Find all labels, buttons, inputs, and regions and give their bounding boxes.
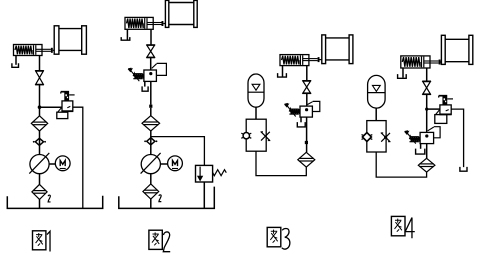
tank T2a (cylinder drain tank) <box>121 37 130 40</box>
cylinder YG3 (spring-applied brake cylinder) <box>280 55 322 66</box>
cylinder YG4 (spring-applied brake cylinder) <box>401 56 442 68</box>
filter L1a <box>31 116 47 131</box>
wire (valve to junction) <box>426 94 428 132</box>
throttle (flow valve Q4) <box>381 133 391 142</box>
wire (pump inlet) <box>150 174 152 184</box>
relief valve Y2 <box>196 165 227 182</box>
wire (valve to junction) <box>39 85 41 116</box>
drum Z3 (winch drum) <box>322 35 353 64</box>
wire (junction to relief valve) <box>40 106 63 108</box>
tank T4a (cylinder drain tank) <box>398 74 407 78</box>
wire (cylinder to valve) <box>306 66 308 81</box>
shutoff valve J3 <box>302 81 311 94</box>
accumulator AC3 <box>248 74 264 107</box>
shutoff valve J4 <box>422 81 431 94</box>
motor M1 <box>55 156 70 171</box>
relief valve Y4 lower body <box>435 110 447 124</box>
wire (sequence valve to filter) <box>426 144 428 159</box>
wire (cylinder to valve) <box>426 68 428 81</box>
pump B1 <box>29 153 49 174</box>
wire (cylinder drain) <box>15 56 17 65</box>
cylinder YG1 (spring-applied brake cylinder) <box>14 45 55 56</box>
tank T4b (relief drain tank) <box>460 167 467 171</box>
spring + adjust arrow (sequence valve X3) <box>285 104 300 117</box>
wire (sequence valve to filter) <box>150 81 152 104</box>
filter L4 <box>418 158 435 172</box>
wire (sequence valve drain) <box>144 81 146 86</box>
filter L1b <box>32 184 47 199</box>
wire (relief drain) <box>451 109 463 167</box>
wire (valve to sequence valve) <box>150 58 152 70</box>
tank T3b (valve drain tank) <box>297 122 305 127</box>
shutoff valve J2 <box>146 45 155 58</box>
wire (pump-motor shaft) <box>49 163 55 165</box>
wire (junction to relief valve) <box>151 137 205 166</box>
throttle (flow valve Q3) <box>261 132 271 141</box>
drum Z1 (winch drum) <box>54 26 86 54</box>
caption 图3 <box>267 227 290 249</box>
spring + adjust arrow (sequence valve X2) <box>128 68 144 81</box>
drum Z2 (winch drum) <box>165 0 197 27</box>
wire (accumulator to flow valve) <box>375 108 377 121</box>
sequence valve X2 <box>144 63 167 81</box>
tank T1 (main reservoir) <box>7 196 102 209</box>
wire (pump-motor shaft) <box>160 163 167 165</box>
tank T1a (cylinder drain tank) <box>12 63 19 67</box>
wire (filter to pump) <box>150 131 152 155</box>
wire (filter to tank) <box>150 199 152 208</box>
spring + adjust arrow (sequence valve X4) <box>405 131 420 144</box>
check valve (flow valve Q4) <box>362 133 373 142</box>
label 2 (filter) <box>159 195 161 202</box>
tank T2 (main reservoir) <box>119 187 215 209</box>
drum Z4 (winch drum) <box>441 35 472 64</box>
wire (filter to pump) <box>39 131 41 155</box>
filter L2b <box>143 184 159 199</box>
label 2 (filter) <box>48 195 50 202</box>
port symbol (pump outlet) <box>33 138 46 145</box>
wire (pump inlet) <box>39 174 41 185</box>
wire (filter to tank) <box>39 199 41 208</box>
cylinder YG2 (spring-applied brake cylinder) <box>125 17 165 29</box>
tank T4c (valve drain tank) <box>416 149 425 155</box>
filter L3 <box>298 152 315 167</box>
flow control valve Q3 body <box>246 119 266 151</box>
wire (cylinder to valve) <box>150 29 152 44</box>
wire (filter to flow valve loop) <box>256 151 306 175</box>
wire (sequence valve to filter) <box>306 117 308 152</box>
wire <box>150 108 152 116</box>
wire (sequence valve drain) <box>300 117 302 122</box>
wire (cylinder drain) <box>282 66 284 77</box>
wire (relief drain to tank) <box>203 182 205 208</box>
relief valve Y1 <box>61 92 75 112</box>
wire (relief drain) <box>73 107 83 208</box>
relief valve Y1 lower body <box>57 107 68 118</box>
plug node (gauge port) <box>305 141 308 144</box>
motor M2 <box>168 156 183 171</box>
relief valve Y4 <box>439 96 453 115</box>
tank T3a (cylinder drain tank) <box>278 73 287 77</box>
tank T2b (valve drain tank) <box>142 86 148 91</box>
filter L2a <box>142 116 160 131</box>
check valve (flow valve Q3) <box>241 133 251 139</box>
wire (junction to relief valve) <box>427 108 440 110</box>
sequence valve X4 <box>420 127 440 144</box>
wire (filter to flow valve loop) <box>376 152 426 177</box>
wire (cylinder to valve) <box>39 56 41 71</box>
node N1 (junction) <box>38 105 42 109</box>
plug node (gauge port) <box>149 105 152 108</box>
caption 图1 <box>33 231 51 252</box>
wire (valve to sequence valve) <box>306 93 308 106</box>
caption 图4 <box>391 216 414 238</box>
shutoff valve J1 <box>35 71 44 85</box>
wire (cylinder drain) <box>126 29 128 39</box>
pump B2 <box>141 153 161 174</box>
port symbol (pump outlet) <box>144 138 157 145</box>
accumulator AC4 <box>368 75 386 108</box>
flow control valve Q4 body <box>367 121 386 152</box>
node N4 (junction) <box>425 108 428 111</box>
wire (cylinder drain) <box>402 68 404 78</box>
wire (accumulator to flow valve) <box>255 107 257 119</box>
caption 图2 <box>149 230 170 251</box>
wire (sequence valve drain) <box>420 144 422 149</box>
sequence valve X3 <box>300 101 320 117</box>
